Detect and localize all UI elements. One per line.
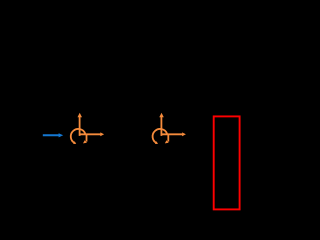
frame 2 rotation arc (left part with end arrowhead): [153, 129, 167, 143]
frame 1 x-axis arrow: [80, 133, 101, 135]
pose frame 2: [153, 113, 186, 144]
frame 1 rotation arc (left part with end arrowhead): [71, 129, 85, 143]
red obstacle rectangle: [214, 116, 240, 209]
pose frame 1: [71, 113, 104, 144]
frame 1 rotation arc (right hook with arrowhead): [86, 134, 88, 142]
frame 1 y-axis arrow: [79, 117, 81, 136]
frame 2 x-axis arrow: [162, 133, 183, 135]
frame 2 rotation arc (right hook with arrowhead): [167, 134, 169, 142]
blue velocity arrow: [43, 133, 63, 137]
frame 2 y-axis arrow: [160, 117, 162, 136]
